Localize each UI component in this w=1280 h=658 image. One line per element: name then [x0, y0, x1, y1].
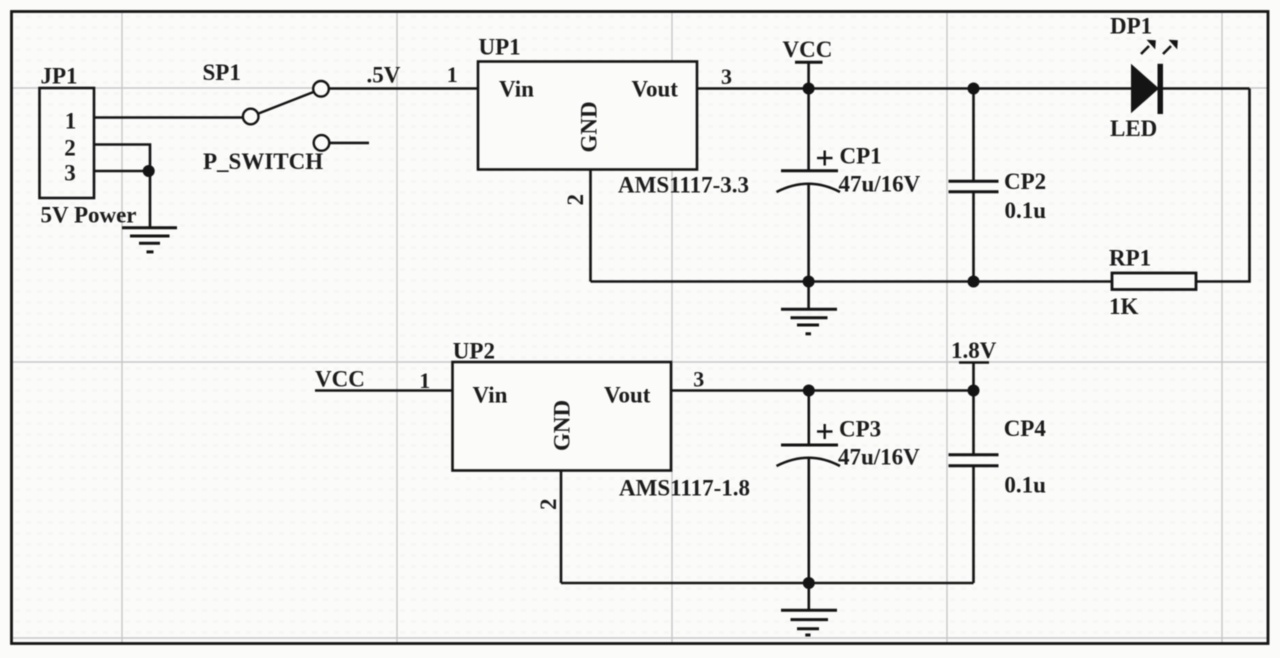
- junction node CP2 bottom: [968, 276, 980, 288]
- capacitor CP3 curved plate: [777, 458, 841, 466]
- svg-text:1.8V: 1.8V: [951, 338, 997, 363]
- capacitor CP3 bottom lead: [807, 458, 810, 583]
- svg-text:SP1: SP1: [203, 60, 241, 85]
- svg-text:3: 3: [693, 367, 704, 392]
- svg-text:0.1u: 0.1u: [1005, 198, 1047, 223]
- wire UP1 pin3 to VCC rail and LED: [697, 87, 1250, 90]
- capacitor CP4 plates: [949, 453, 999, 456]
- capacitor CP1 flat plate: [781, 169, 838, 172]
- svg-text:LED: LED: [1110, 116, 1157, 141]
- wire JP1 pin3: [94, 170, 150, 173]
- svg-text:5V Power: 5V Power: [41, 203, 137, 228]
- capacitor CP2 bottom lead: [972, 192, 975, 282]
- ground symbol under JP1: [122, 228, 177, 252]
- svg-text:CP2: CP2: [1004, 169, 1046, 194]
- resistor RP1 body: [1112, 273, 1196, 290]
- wire UP1 pin2 down: [589, 170, 592, 282]
- SP1 contact circle right: [313, 81, 329, 97]
- svg-text:1: 1: [419, 368, 430, 393]
- svg-text:3: 3: [64, 161, 76, 186]
- wire UP2 pin3: [671, 389, 974, 392]
- svg-text:Vout: Vout: [604, 383, 651, 408]
- svg-text:Vout: Vout: [632, 77, 679, 102]
- ground symbol bottom: [781, 610, 837, 635]
- P_SWITCH terminal circle: [314, 135, 330, 151]
- connector JP1 box: [40, 88, 95, 198]
- junction node VCC: [803, 83, 815, 95]
- wire SP1 to UP1 (net .5V): [329, 87, 478, 90]
- LED triangle: [1131, 64, 1159, 113]
- DP1 arrow 1: [1141, 46, 1149, 54]
- wire VCC to UP2 pin1: [315, 389, 453, 392]
- regulator UP1 box: [478, 62, 697, 170]
- regulator UP2 box: [453, 362, 672, 471]
- wire bottom rail: [561, 582, 974, 585]
- svg-text:AMS1117-3.3: AMS1117-3.3: [618, 173, 749, 198]
- svg-text:47u/16V: 47u/16V: [839, 172, 921, 197]
- capacitor CP1 bottom lead: [807, 184, 810, 282]
- svg-text:CP1: CP1: [840, 144, 882, 169]
- svg-text:UP1: UP1: [479, 35, 521, 60]
- svg-text:1K: 1K: [1109, 294, 1139, 319]
- capacitor CP1 plus sign: [817, 151, 833, 166]
- grid vertical line x=672: [671, 13, 673, 643]
- svg-text:P_SWITCH: P_SWITCH: [203, 149, 323, 174]
- wire stem to ground mid: [807, 282, 810, 309]
- capacitor CP3 top lead: [807, 391, 810, 445]
- grid vertical line x=122: [121, 13, 123, 643]
- wire right corner down: [1196, 89, 1250, 282]
- wire to ground: [149, 171, 152, 227]
- capacitor CP4 bottom lead: [972, 466, 975, 583]
- capacitor CP3 flat plate: [781, 444, 838, 447]
- svg-text:DP1: DP1: [1110, 14, 1152, 39]
- svg-text:.5V: .5V: [367, 63, 401, 88]
- svg-text:1: 1: [447, 62, 458, 87]
- svg-text:2: 2: [64, 136, 76, 161]
- wire stem to bottom ground: [807, 583, 810, 609]
- junction node CP3 top: [803, 385, 815, 397]
- junction node 1.8V: [968, 385, 980, 397]
- svg-text:UP2: UP2: [453, 339, 495, 364]
- capacitor CP2 plates: [949, 180, 999, 183]
- svg-text:JP1: JP1: [41, 64, 78, 89]
- junction node CP1 bottom: [803, 276, 815, 288]
- svg-text:CP3: CP3: [839, 417, 881, 442]
- grid vertical line x=1222: [1221, 13, 1223, 643]
- svg-text:CP4: CP4: [1004, 416, 1047, 441]
- svg-text:47u/16V: 47u/16V: [838, 445, 920, 470]
- grid horizontal line y=362: [13, 361, 1267, 363]
- wire ground rail: [591, 280, 1113, 283]
- svg-text:3: 3: [721, 64, 732, 89]
- LED cathode bar: [1158, 64, 1164, 114]
- wire UP2 pin2 down: [560, 471, 563, 584]
- DP1 arrow 2: [1163, 46, 1171, 54]
- grid horizontal line y=638: [13, 637, 1267, 639]
- svg-text:RP1: RP1: [1109, 246, 1151, 271]
- grid vertical line x=947: [946, 13, 948, 643]
- junction node CP2 top: [968, 83, 980, 95]
- capacitor CP1 top lead: [807, 89, 810, 171]
- grid horizontal line y=88: [13, 87, 1267, 89]
- junction node JP1 pin3: [143, 165, 155, 177]
- capacitor CP3 plus sign: [817, 424, 833, 439]
- capacitor CP1 curved plate: [777, 184, 841, 192]
- svg-text:GND: GND: [577, 101, 602, 152]
- svg-text:Vin: Vin: [499, 77, 534, 102]
- svg-text:2: 2: [536, 499, 561, 511]
- svg-text:GND: GND: [550, 400, 575, 451]
- svg-text:0.1u: 0.1u: [1004, 473, 1046, 498]
- svg-text:VCC: VCC: [315, 367, 365, 392]
- ground symbol under CP1: [781, 309, 837, 334]
- svg-text:1: 1: [65, 109, 77, 134]
- wire JP1 pin2: [94, 145, 150, 172]
- svg-text:Vin: Vin: [473, 383, 508, 408]
- wire JP1 pin1 to SP1: [94, 116, 243, 119]
- svg-text:2: 2: [563, 194, 588, 206]
- junction node CP3 bottom: [803, 577, 815, 589]
- svg-text:VCC: VCC: [783, 37, 833, 62]
- SP1 lever: [259, 92, 314, 114]
- capacitor CP2 top lead: [972, 89, 975, 182]
- wire P_SWITCH stub: [330, 142, 370, 145]
- svg-text:AMS1117-1.8: AMS1117-1.8: [619, 476, 750, 501]
- grid vertical line x=397: [396, 13, 398, 643]
- SP1 contact circle left: [243, 109, 259, 125]
- capacitor CP4 top lead: [972, 391, 975, 455]
